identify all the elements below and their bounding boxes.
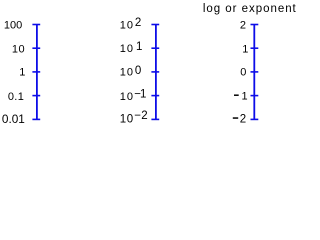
right axis label -2 — [233, 117, 238, 119]
right axis bottom end bar (-2) — [251, 118, 259, 120]
left axis tick (1) — [32, 71, 40, 73]
svg-text:0.01: 0.01 — [2, 112, 25, 126]
right axis label -1 — [234, 94, 239, 96]
svg-text:0.1: 0.1 — [8, 91, 24, 103]
middle axis tick (10^0) — [151, 71, 159, 73]
left axis top end bar (100) — [32, 24, 40, 26]
left axis tick (10) — [32, 47, 40, 49]
middle axis tick (10^-1) — [151, 95, 159, 97]
svg-text:100: 100 — [4, 20, 22, 32]
svg-text:2: 2 — [240, 20, 246, 32]
svg-text:1: 1 — [242, 91, 248, 103]
left axis bottom end bar (0.01) — [32, 118, 40, 120]
svg-text:101: 101 — [120, 41, 144, 55]
svg-text:102: 102 — [120, 17, 142, 31]
svg-text:100: 100 — [120, 65, 142, 79]
svg-text:1: 1 — [19, 67, 25, 79]
middle axis tick (10^1) — [151, 47, 159, 49]
right axis tick (-1) — [251, 95, 259, 97]
svg-text:1: 1 — [242, 43, 248, 55]
svg-text:log or exponent: log or exponent — [203, 3, 297, 15]
svg-text:10−1: 10−1 — [120, 88, 148, 103]
right axis tick (0) — [251, 71, 259, 73]
svg-text:10: 10 — [12, 43, 25, 55]
left axis: linear scale line — [36, 25, 38, 120]
right axis: log / exponent scale line — [253, 25, 255, 120]
left axis tick (0.1) — [32, 95, 40, 97]
svg-text:10−2: 10−2 — [120, 110, 148, 126]
svg-text:0: 0 — [240, 67, 246, 79]
right axis top end bar (2) — [251, 24, 259, 26]
right axis tick (1) — [251, 47, 259, 49]
middle axis: powers-of-ten scale line — [155, 25, 157, 120]
svg-text:2: 2 — [240, 113, 246, 125]
middle axis bottom end bar (10^-2) — [151, 118, 159, 120]
middle axis top end bar (10^2) — [151, 24, 159, 26]
